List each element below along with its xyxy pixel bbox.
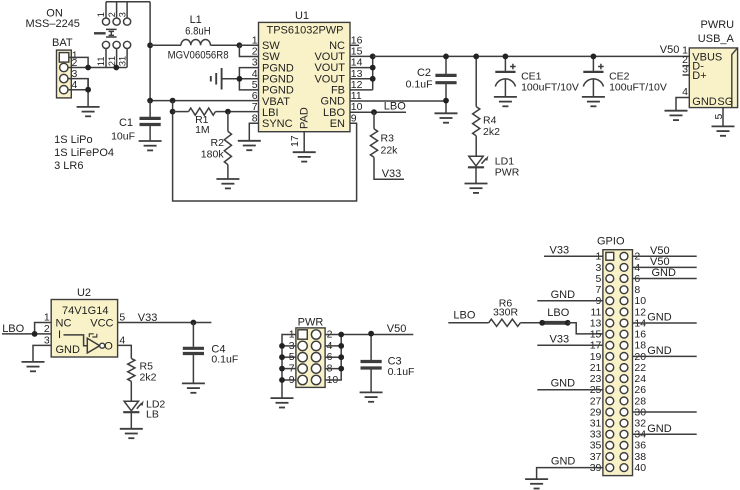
junction <box>191 320 197 326</box>
svg-text:SYNC: SYNC <box>262 118 293 130</box>
ground <box>293 152 316 161</box>
svg-text:GND: GND <box>647 345 672 357</box>
svg-text:VOUT: VOUT <box>314 73 345 85</box>
svg-text:2k2: 2k2 <box>483 126 500 138</box>
svg-text:U1: U1 <box>295 10 309 22</box>
ground <box>22 362 45 371</box>
svg-text:2: 2 <box>252 45 258 57</box>
resistor R2 180k <box>201 112 232 179</box>
wire VCC pin5 V33 rail <box>118 322 212 324</box>
ground <box>494 97 517 106</box>
junction <box>338 366 344 372</box>
wire U2 GND pin3 to ground <box>33 345 51 361</box>
junction <box>32 331 38 337</box>
wire GPIO pin20 GND <box>633 355 697 357</box>
ground <box>582 97 605 106</box>
junction <box>370 65 376 71</box>
svg-text:C2: C2 <box>417 67 431 79</box>
svg-text:3: 3 <box>44 334 50 346</box>
svg-text:V33: V33 <box>550 244 570 256</box>
svg-text:1S LiPo: 1S LiPo <box>54 134 93 146</box>
svg-text:R3: R3 <box>381 133 395 145</box>
switch S1 MSS-2245 <box>94 2 150 68</box>
svg-text:GND: GND <box>551 289 576 301</box>
ground <box>139 141 162 150</box>
svg-text:MGV06056R8: MGV06056R8 <box>168 49 229 61</box>
pin 17 PAD stub <box>303 132 305 152</box>
svg-text:GND: GND <box>647 312 672 324</box>
svg-text:40: 40 <box>634 462 646 474</box>
pin 16 NC stub <box>350 44 359 46</box>
junction <box>237 76 243 82</box>
svg-text:4: 4 <box>119 334 125 346</box>
ground <box>182 383 205 392</box>
svg-text:1M: 1M <box>195 124 210 136</box>
ground <box>525 479 548 488</box>
wire GPIO pin17 V33 <box>537 344 603 346</box>
connector BAT <box>52 37 78 98</box>
svg-text:5: 5 <box>119 312 125 324</box>
svg-text:V33: V33 <box>550 333 570 345</box>
svg-text:330R: 330R <box>493 307 519 319</box>
wire VBAT row <box>150 100 258 102</box>
svg-text:35: 35 <box>590 440 602 452</box>
svg-text:LBO: LBO <box>547 307 569 319</box>
svg-text:PWR: PWR <box>495 167 520 179</box>
junction <box>338 354 344 360</box>
junction <box>443 98 449 104</box>
junction <box>370 76 376 82</box>
resistor R1 1M <box>173 108 228 136</box>
svg-text:VOUT: VOUT <box>314 51 345 63</box>
svg-text:PAD: PAD <box>298 107 310 129</box>
pin D- stub <box>683 65 690 67</box>
svg-text:180k: 180k <box>201 148 225 160</box>
svg-text:6.8uH: 6.8uH <box>185 25 211 37</box>
junction <box>443 54 449 60</box>
pin D+ stub <box>683 74 690 76</box>
svg-text:0.1uF: 0.1uF <box>388 366 415 378</box>
svg-text:GND: GND <box>56 344 81 356</box>
svg-text:TPS61032PWP: TPS61032PWP <box>266 24 343 36</box>
inductor L1 6.8uH <box>150 14 239 61</box>
svg-text:EN: EN <box>330 118 345 130</box>
ground <box>238 141 261 150</box>
resistor R5 2k2 <box>128 358 157 401</box>
svg-text:3 LR6: 3 LR6 <box>54 160 83 172</box>
wire LBO to U2 pins 1,2 <box>2 323 51 334</box>
LED LD1 PWR <box>468 156 520 184</box>
connector GPIO header 2x20 <box>590 236 647 476</box>
junction <box>565 320 571 326</box>
wire GPIO pin6 GND <box>633 278 697 280</box>
svg-text:GND: GND <box>692 96 717 108</box>
svg-text:1: 1 <box>96 12 106 17</box>
junction <box>473 54 479 60</box>
svg-text:16: 16 <box>634 329 646 341</box>
svg-text:17: 17 <box>289 135 301 147</box>
wire BAT pin4 to ground <box>68 79 88 107</box>
junction <box>237 42 243 48</box>
svg-text:LB: LB <box>146 409 159 421</box>
svg-text:V33: V33 <box>382 168 402 180</box>
junction <box>591 54 597 60</box>
junction <box>225 109 231 115</box>
junction <box>371 109 377 115</box>
LED LD2 LB <box>123 398 165 428</box>
svg-text:2k2: 2k2 <box>140 371 157 383</box>
wire PWR even pins V50 bus <box>325 335 413 380</box>
ground <box>712 126 735 135</box>
wire U1 GND pin11 <box>350 100 446 102</box>
svg-text:PGND: PGND <box>262 74 294 86</box>
svg-text:R4: R4 <box>483 115 497 127</box>
svg-text:9: 9 <box>351 112 357 124</box>
svg-text:2: 2 <box>44 323 50 335</box>
svg-text:6: 6 <box>252 90 258 102</box>
junction <box>170 98 176 104</box>
ground <box>360 392 383 401</box>
svg-text:31: 31 <box>117 56 127 66</box>
wire GPIO pin4 V50 <box>633 266 697 268</box>
wire PWR odd pins ground bus <box>282 335 296 398</box>
svg-text:26: 26 <box>634 384 646 396</box>
inverter U2 74V1G14 <box>44 287 126 357</box>
junction <box>503 54 509 60</box>
svg-text:2: 2 <box>107 12 117 17</box>
svg-text:10uF: 10uF <box>111 131 135 143</box>
svg-text:21: 21 <box>107 56 117 66</box>
connector PWR header 2x5 <box>289 316 339 387</box>
svg-text:R2: R2 <box>211 137 225 149</box>
svg-text:VCC: VCC <box>90 317 113 329</box>
junction <box>85 87 91 93</box>
svg-text:USB_A: USB_A <box>698 33 735 45</box>
svg-text:14: 14 <box>351 57 363 69</box>
resistor R4 2k2 <box>473 56 500 156</box>
op-amp U1 TPS61032PWP <box>252 10 363 132</box>
junction <box>279 366 285 372</box>
svg-text:BAT: BAT <box>52 37 73 49</box>
wire VOUT pins to V50 rail <box>350 56 373 90</box>
svg-text:V50: V50 <box>387 323 407 335</box>
svg-text:GND: GND <box>321 96 346 108</box>
wire VBAT to LBI divider / EN return <box>173 101 357 201</box>
svg-text:LBO: LBO <box>384 101 406 113</box>
svg-text:NC: NC <box>56 317 72 329</box>
junction <box>85 65 91 71</box>
wire GPIO pin25 GND <box>537 389 603 391</box>
junction <box>113 65 119 71</box>
ground <box>435 113 458 122</box>
wire BAT pin3 to pin4 node <box>68 79 88 90</box>
wire BAT pin1 to pin2 node <box>69 57 88 67</box>
wire USB GND to ground <box>676 98 689 111</box>
svg-text:GND: GND <box>551 378 576 390</box>
capacitor CE2 100uFT/10V (polarized) <box>583 56 667 96</box>
junction <box>338 343 344 349</box>
ground <box>216 179 239 188</box>
resistor R3 22k <box>370 112 404 180</box>
junction <box>370 54 376 60</box>
capacitor C1 <box>111 101 161 143</box>
svg-text:15: 15 <box>351 45 363 57</box>
svg-text:U2: U2 <box>77 287 91 299</box>
capacitor C2 0.1uF <box>406 56 457 113</box>
svg-text:0.1uF: 0.1uF <box>406 79 433 91</box>
svg-text:C1: C1 <box>119 117 133 129</box>
capacitor C4 0.1uF <box>183 323 238 384</box>
wire L1 to U1 SW pins <box>239 45 258 56</box>
junction <box>279 377 285 383</box>
wire R1 to LBI pin7 <box>228 111 259 113</box>
junction <box>279 343 285 349</box>
ground <box>77 107 100 116</box>
jumper (thick) LBO <box>542 321 568 325</box>
svg-text:0.1uF: 0.1uF <box>211 354 238 366</box>
wire GPIO pin2 V50 <box>633 255 697 257</box>
wire BAT pin2 to switch <box>68 67 127 69</box>
svg-text:8: 8 <box>252 112 258 124</box>
svg-text:36: 36 <box>634 440 646 452</box>
wire switch to L1/VBAT node <box>149 2 151 101</box>
wire jumper to GPIO pin15 <box>568 323 603 334</box>
net LBO at U1 pin10 <box>350 111 406 113</box>
svg-text:22k: 22k <box>381 145 399 157</box>
wire PGND pins 3-5 bracket <box>222 68 259 90</box>
wire GPIO pin39 GND to ground <box>537 468 603 479</box>
svg-text:LBO: LBO <box>453 310 475 322</box>
ground <box>120 429 143 438</box>
wire U2 output pin4 <box>118 345 132 358</box>
svg-text:15: 15 <box>590 329 602 341</box>
ground (rotated) at PGND <box>211 68 222 90</box>
wire SYNC to ground <box>249 123 258 140</box>
ground <box>665 111 688 120</box>
svg-text:3: 3 <box>117 12 127 17</box>
svg-text:GPIO: GPIO <box>597 236 625 248</box>
svg-text:SG: SG <box>717 96 733 108</box>
svg-text:L1: L1 <box>190 14 202 26</box>
svg-text:VBAT: VBAT <box>262 96 290 108</box>
connector PWRU USB_A <box>682 19 737 120</box>
junction <box>279 354 285 360</box>
junction <box>170 109 176 115</box>
junction <box>539 320 545 326</box>
wire GPIO pin14 GND <box>633 322 697 324</box>
svg-text:1: 1 <box>44 312 50 324</box>
svg-text:74V1G14: 74V1G14 <box>62 305 108 317</box>
svg-text:5: 5 <box>596 273 602 285</box>
junction <box>368 331 374 337</box>
wire USB SG to ground <box>722 108 724 127</box>
junction <box>147 98 153 104</box>
wire GPIO pin1 V33 <box>544 255 603 257</box>
ground <box>465 184 488 193</box>
wire GPIO pin9 GND <box>537 300 603 302</box>
wire GPIO pin30 <box>633 411 697 413</box>
capacitor C3 0.1uF <box>361 334 415 393</box>
svg-text:1S LiFePO4: 1S LiFePO4 <box>54 147 114 159</box>
svg-text:100uFT/10V: 100uFT/10V <box>609 82 667 94</box>
svg-text:4: 4 <box>682 86 688 98</box>
resistor R6 330R <box>448 297 542 326</box>
svg-text:D+: D+ <box>692 70 706 82</box>
svg-text:11: 11 <box>96 57 106 67</box>
svg-text:PWR: PWR <box>298 316 324 328</box>
ground <box>271 398 294 407</box>
svg-text:GND: GND <box>551 456 576 468</box>
svg-text:V33: V33 <box>138 312 158 324</box>
wire V50 rail <box>373 55 690 57</box>
junction node VBAT-SW <box>147 42 153 48</box>
svg-text:PWRU: PWRU <box>701 19 735 31</box>
svg-text:GND: GND <box>652 267 677 279</box>
capacitor CE1 100uFT/10V (polarized) <box>495 56 579 96</box>
svg-text:100uFT/10V: 100uFT/10V <box>521 82 579 94</box>
svg-text:11: 11 <box>351 90 362 102</box>
svg-text:GND: GND <box>647 423 672 435</box>
junction <box>338 332 344 338</box>
svg-text:V50: V50 <box>660 44 680 56</box>
svg-text:SW: SW <box>262 51 280 63</box>
svg-text:I: I <box>58 329 61 341</box>
wire GPIO pin34 GND <box>633 433 697 435</box>
svg-text:O: O <box>104 341 113 353</box>
svg-text:MSS–2245: MSS–2245 <box>26 18 80 30</box>
svg-text:3: 3 <box>252 57 258 69</box>
